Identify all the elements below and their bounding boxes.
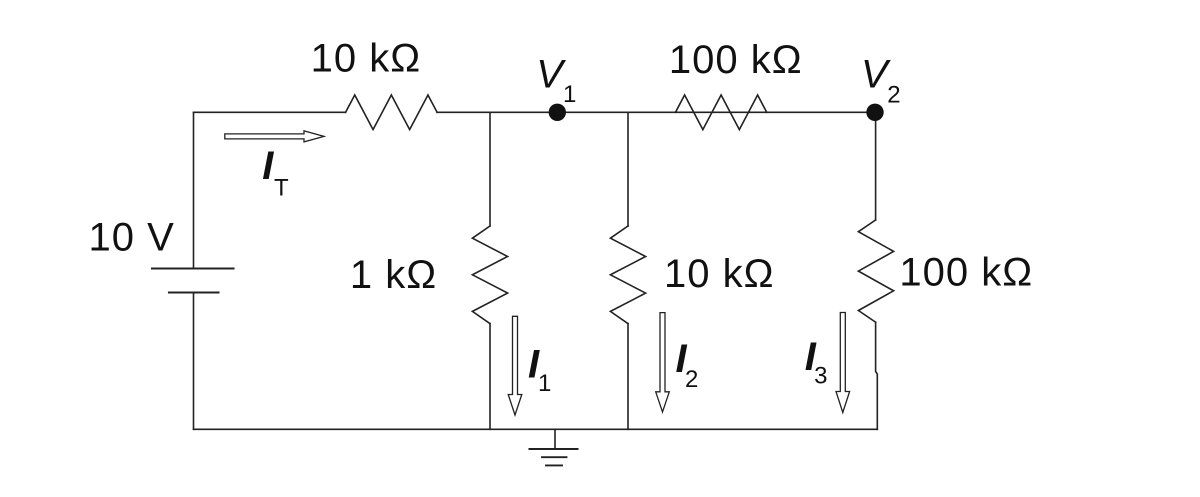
svg-text:2: 2 — [887, 82, 900, 109]
svg-text:2: 2 — [685, 366, 698, 393]
svg-text:1 kΩ: 1 kΩ — [350, 253, 437, 297]
svg-text:I: I — [262, 144, 274, 188]
svg-text:1: 1 — [563, 81, 576, 108]
svg-text:100 kΩ: 100 kΩ — [899, 251, 1033, 295]
svg-text:V: V — [536, 52, 566, 96]
svg-text:10 kΩ: 10 kΩ — [664, 252, 775, 296]
svg-text:T: T — [274, 175, 289, 202]
svg-text:10 V: 10 V — [89, 216, 175, 260]
svg-text:1: 1 — [538, 370, 551, 397]
svg-text:3: 3 — [814, 363, 827, 390]
svg-text:100 kΩ: 100 kΩ — [669, 38, 803, 82]
svg-text:10 kΩ: 10 kΩ — [311, 37, 422, 81]
